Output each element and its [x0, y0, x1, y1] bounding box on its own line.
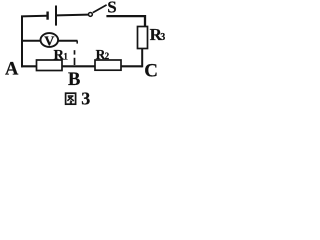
wire: R3 down to bottom-right corner C	[141, 49, 143, 68]
caption figure glyph 图	[66, 93, 76, 104]
wire: bottom A to C	[21, 65, 143, 67]
svg-text:C: C	[144, 60, 158, 81]
voltmeter V circle	[41, 33, 59, 47]
switch pivot circle	[88, 12, 92, 16]
switch lever	[93, 5, 107, 13]
broken wire dash 1 down to node B	[74, 50, 76, 54]
wire: switch to top-right corner and down to R3	[106, 16, 145, 27]
resistor R3 box	[138, 27, 148, 49]
battery short plate (negative)	[46, 12, 48, 20]
svg-text:B: B	[68, 70, 80, 90]
resistor R1 box	[37, 60, 63, 71]
wire: battery to switch	[57, 14, 88, 17]
svg-text:1: 1	[63, 52, 68, 62]
wire tick down at end of voltmeter lead	[76, 41, 78, 44]
wire: branch to voltmeter	[22, 40, 40, 42]
svg-text:S: S	[107, 0, 116, 17]
svg-text:3: 3	[160, 32, 165, 43]
svg-text:3: 3	[81, 89, 90, 109]
wire: voltmeter right lead	[59, 40, 78, 42]
wire: left vertical A to top-left corner	[21, 16, 23, 67]
battery tall plate (positive)	[55, 6, 57, 26]
svg-text:A: A	[5, 60, 19, 80]
svg-text:2: 2	[105, 51, 110, 61]
wire: top left segment to battery	[21, 15, 47, 18]
broken wire dash 2 down to node B	[74, 58, 76, 65]
resistor R2 box	[95, 60, 121, 70]
